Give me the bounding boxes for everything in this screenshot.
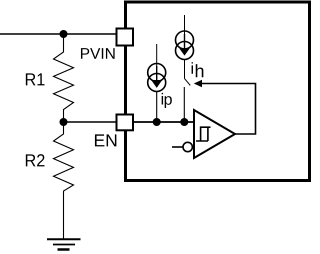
switch: upper lead <box>184 60 186 79</box>
label EN <box>95 134 116 146</box>
node: junction EN wire / switch <box>180 118 188 126</box>
IC box <box>126 2 310 181</box>
hysteresis symbol <box>196 127 211 141</box>
pin EN <box>117 115 134 131</box>
node: junction EN wire / ip source <box>153 118 161 126</box>
wire: input net to PVIN pin <box>0 33 116 35</box>
resistor R2 <box>54 122 74 239</box>
label ih <box>192 62 204 77</box>
current source ih <box>176 31 194 60</box>
resistor R1 <box>54 34 74 122</box>
node: junction of input net and R1 <box>60 30 68 38</box>
feedback wire from comparator output to switch <box>202 84 256 135</box>
pin PVIN <box>117 29 134 46</box>
wire: EN pin to comparator input <box>134 121 196 123</box>
switch blade <box>185 79 191 86</box>
ground <box>47 239 81 249</box>
label R2 <box>26 154 45 166</box>
label ip <box>162 93 172 108</box>
wire: stub above current source ip <box>156 44 158 66</box>
node: divider junction to EN <box>60 118 68 126</box>
wire: inverting input stub <box>172 146 183 148</box>
wire: stub above current source ih <box>184 15 186 34</box>
current source ip <box>148 64 166 92</box>
switch: lower lead <box>183 87 185 122</box>
label R1 <box>26 73 45 85</box>
wire: ip to EN node <box>156 92 158 123</box>
switch control arrow <box>194 80 202 88</box>
comparator U1 <box>194 110 235 158</box>
label PVIN <box>81 48 115 59</box>
inverting input bubble <box>183 142 192 151</box>
wire: divider junction to EN pin <box>64 121 117 123</box>
